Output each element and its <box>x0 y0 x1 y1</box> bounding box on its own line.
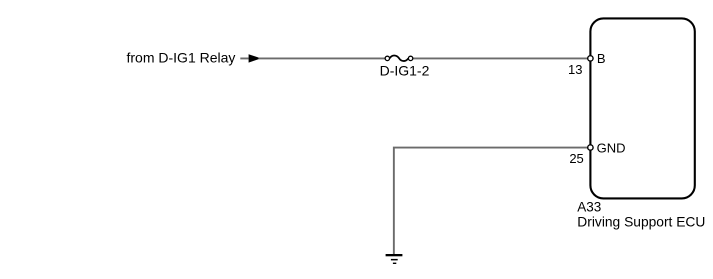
svg-text:A33: A33 <box>577 199 601 214</box>
svg-text:GND: GND <box>597 140 626 155</box>
svg-text:D-IG1-2: D-IG1-2 <box>380 63 430 79</box>
svg-text:25: 25 <box>569 151 583 166</box>
svg-text:Driving Support ECU: Driving Support ECU <box>577 215 705 230</box>
svg-text:B: B <box>597 51 606 66</box>
svg-text:13: 13 <box>568 62 582 77</box>
svg-text:from D-IG1 Relay: from D-IG1 Relay <box>127 50 236 66</box>
